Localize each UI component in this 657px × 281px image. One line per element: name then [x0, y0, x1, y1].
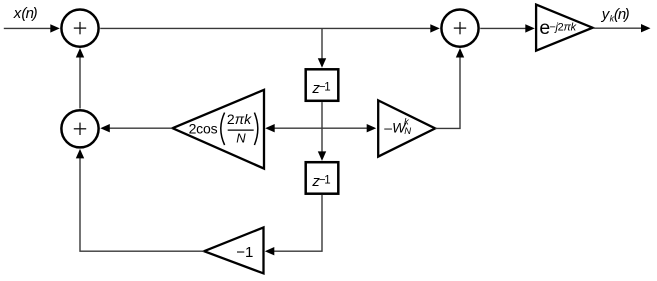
svg-text:x(n): x(n)	[13, 5, 38, 22]
svg-text:N: N	[404, 126, 411, 137]
svg-text:2cos: 2cos	[189, 120, 218, 136]
adder U1 (top-left sum)	[61, 10, 98, 47]
wire crossing node to gains	[267, 127, 375, 129]
gain A1 (2cos(2pik/N) triangle)	[173, 90, 265, 169]
svg-text:yk(n): yk(n)	[601, 6, 630, 23]
wire gain -1 to adder U3	[80, 158, 204, 251]
gain A2 (-W_N^k triangle)	[378, 100, 435, 156]
svg-text:N: N	[236, 131, 246, 146]
wire adder U1 to adder U2	[100, 27, 431, 29]
svg-text:−1: −1	[236, 244, 253, 261]
gain A3 (-1 triangle)	[204, 227, 263, 273]
wire junction drop to delay Z1	[321, 28, 323, 59]
svg-text:2πk: 2πk	[227, 111, 252, 127]
gain A4 (e^-j2pik triangle)	[536, 5, 593, 51]
wire adder U3 to adder U1	[79, 57, 81, 109]
wire gain A2 to adder U2	[435, 57, 460, 128]
wire adder U2 to gain A4	[480, 27, 526, 29]
svg-text:−j2πk: −j2πk	[549, 21, 576, 33]
adder U3 (lower-left sum)	[61, 110, 98, 147]
wire input x(n)	[4, 27, 52, 29]
delay block Z2 (z^-1)	[306, 162, 339, 194]
delay block Z1 (z^-1)	[306, 69, 339, 101]
adder U2 (top-right sum)	[441, 10, 478, 47]
wire output y_k(n)	[593, 27, 642, 29]
wire delay Z2 down and left to gain -1	[273, 195, 322, 251]
wire gain A1 to adder U3	[108, 127, 173, 129]
wire delay Z1 to delay Z2	[321, 102, 323, 153]
